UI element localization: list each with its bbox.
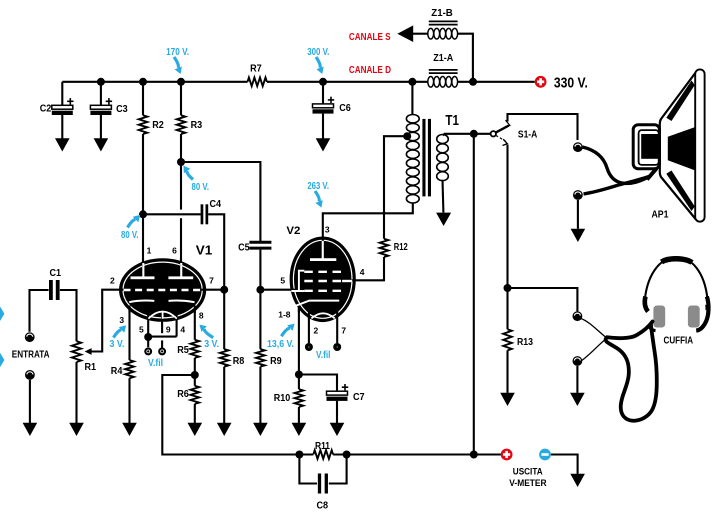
svg-text:V1: V1 <box>196 243 213 258</box>
svg-text:6: 6 <box>172 245 177 255</box>
svg-text:R1: R1 <box>85 362 97 373</box>
svg-text:9: 9 <box>166 324 171 334</box>
svg-text:7: 7 <box>341 326 346 336</box>
svg-text:C6: C6 <box>339 103 351 114</box>
svg-text:C3: C3 <box>116 104 128 115</box>
svg-text:R13: R13 <box>517 337 533 348</box>
svg-text:R6: R6 <box>177 389 189 400</box>
svg-text:R3: R3 <box>191 120 203 131</box>
svg-text:80 V.: 80 V. <box>192 182 210 193</box>
svg-text:C7: C7 <box>353 392 365 403</box>
svg-text:R2: R2 <box>152 120 164 131</box>
svg-text:80 V.: 80 V. <box>121 230 139 241</box>
svg-text:5: 5 <box>139 324 144 334</box>
svg-text:7: 7 <box>209 275 214 285</box>
svg-text:R10: R10 <box>274 393 291 404</box>
svg-text:ENTRATA: ENTRATA <box>12 349 50 361</box>
svg-text:CANALE S: CANALE S <box>349 31 391 43</box>
svg-text:2: 2 <box>314 326 319 336</box>
svg-text:V.fil: V.fil <box>316 350 331 361</box>
svg-text:1-8: 1-8 <box>278 309 291 319</box>
svg-text:1: 1 <box>147 245 152 255</box>
svg-text:C8: C8 <box>317 501 329 512</box>
svg-text:V-METER: V-METER <box>509 478 546 489</box>
svg-text:C4: C4 <box>210 199 222 210</box>
svg-text:R12: R12 <box>394 242 408 253</box>
svg-text:5: 5 <box>280 275 285 285</box>
svg-text:Z1-B: Z1-B <box>431 8 453 19</box>
svg-text:3: 3 <box>325 225 330 235</box>
svg-text:USCITA: USCITA <box>513 466 543 477</box>
svg-text:C1: C1 <box>50 268 62 279</box>
svg-text:R11: R11 <box>315 441 330 452</box>
svg-text:2: 2 <box>110 275 115 285</box>
svg-text:R7: R7 <box>250 63 262 74</box>
svg-text:3 V.: 3 V. <box>110 339 125 350</box>
svg-text:Z1-A: Z1-A <box>433 53 453 64</box>
svg-text:R9: R9 <box>270 356 282 367</box>
svg-text:R8: R8 <box>233 356 245 367</box>
svg-text:V2: V2 <box>286 225 300 237</box>
svg-text:3: 3 <box>119 315 124 325</box>
svg-text:8: 8 <box>199 310 204 320</box>
svg-text:R4: R4 <box>111 366 123 377</box>
svg-text:V.fil: V.fil <box>148 358 163 369</box>
svg-text:300 V.: 300 V. <box>307 47 329 58</box>
svg-text:C2: C2 <box>40 104 52 115</box>
svg-text:AP1: AP1 <box>652 209 669 221</box>
svg-text:4: 4 <box>180 324 185 334</box>
svg-text:13,6 V.: 13,6 V. <box>267 339 294 350</box>
svg-text:170 V.: 170 V. <box>166 47 189 58</box>
svg-text:T1: T1 <box>445 112 459 129</box>
svg-text:4: 4 <box>360 267 365 277</box>
svg-text:S1-A: S1-A <box>518 130 537 141</box>
svg-text:CANALE D: CANALE D <box>349 64 391 76</box>
svg-text:3 V.: 3 V. <box>204 339 219 350</box>
svg-text:R5: R5 <box>177 345 189 356</box>
svg-text:263 V.: 263 V. <box>307 181 329 192</box>
svg-text:CUFFIA: CUFFIA <box>664 336 694 347</box>
svg-text:330 V.: 330 V. <box>554 75 588 92</box>
svg-text:C5: C5 <box>238 242 250 253</box>
